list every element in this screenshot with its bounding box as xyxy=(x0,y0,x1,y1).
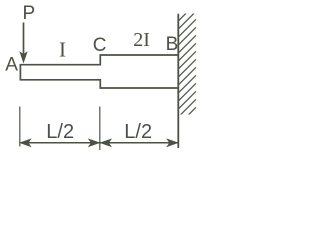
svg-text:I: I xyxy=(59,38,66,62)
dim arrow mid-left (points right) xyxy=(89,139,99,146)
extension line left (at A) xyxy=(19,107,21,147)
dimension line xyxy=(21,142,178,144)
extension line middle (at C) xyxy=(99,107,101,151)
wall hatching xyxy=(178,3,196,125)
svg-text:C: C xyxy=(93,35,107,56)
svg-text:2I: 2I xyxy=(133,29,150,51)
wall line xyxy=(177,14,179,148)
svg-text:A: A xyxy=(5,55,18,76)
beam outline (stepped cantilever) xyxy=(20,55,178,88)
dim arrow left (points left) xyxy=(20,139,30,146)
dim arrow mid-right (points left) xyxy=(101,139,111,146)
svg-text:L/2: L/2 xyxy=(46,121,74,143)
svg-text:B: B xyxy=(166,34,179,55)
load P arrow xyxy=(20,23,27,63)
svg-text:L/2: L/2 xyxy=(124,121,152,143)
dim arrow right (points right) xyxy=(167,139,177,146)
svg-text:P: P xyxy=(23,3,36,24)
